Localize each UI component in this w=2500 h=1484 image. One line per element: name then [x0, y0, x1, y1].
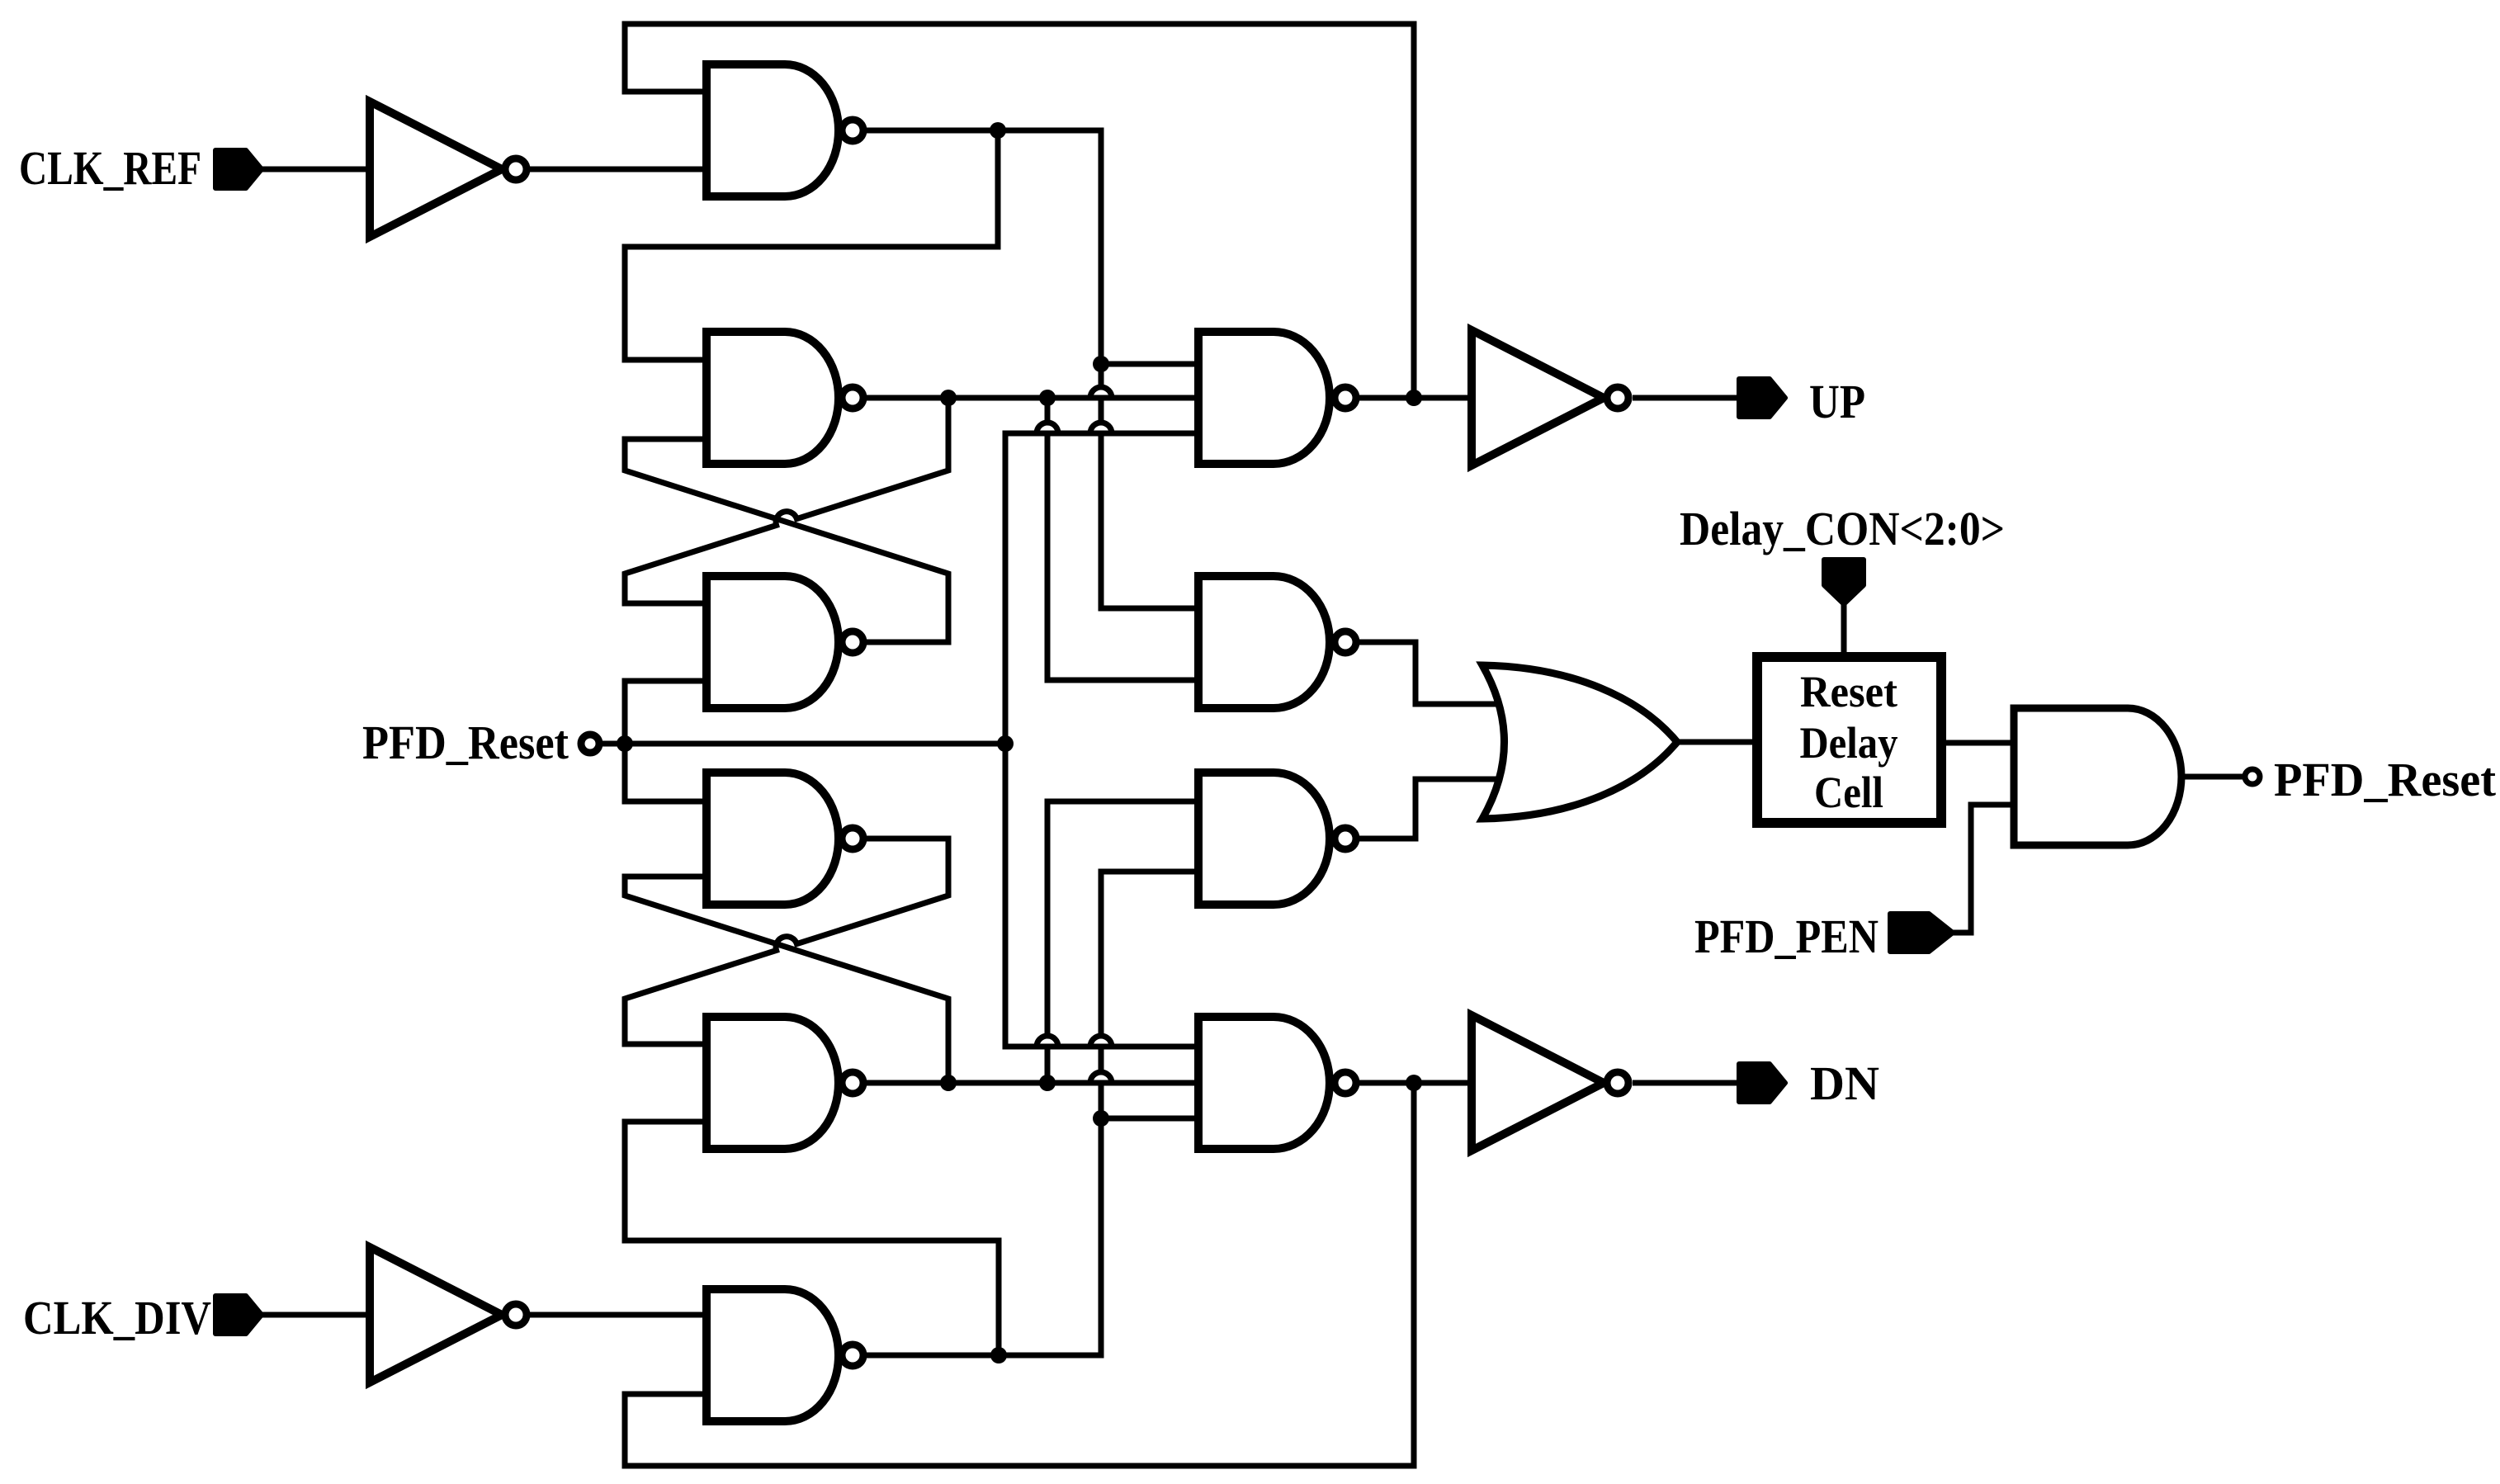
inverter X3 (UP output) [1472, 330, 1628, 466]
junction U5 output node B [1039, 1075, 1056, 1091]
nand gate U3 [707, 576, 863, 708]
wire U2 output branch down to NAND A input 2 [1047, 398, 1203, 680]
or gate U11 [1482, 665, 1677, 819]
wire PFD_Reset rail to U3 input B [625, 681, 707, 744]
wire AND output to PFD_Reset terminal [2181, 774, 2244, 780]
junction U2 output node A [940, 390, 957, 406]
wire branch to DN NAND input 3 [1101, 1116, 1203, 1122]
wire U4 output via diagonal (with hop) to U5 input A [625, 839, 948, 1044]
wire DN-output feedback to U6 input B (bottom rail) [625, 1083, 1414, 1466]
junction U1 output node [990, 122, 1006, 139]
wire U1 output down-left to U2 input A [625, 130, 998, 360]
wire branch to UP NAND input 1 [1101, 362, 1203, 367]
junction U5 output node A [940, 1075, 957, 1091]
wire Delay_CON pin to Reset Delay Cell [1841, 603, 1847, 652]
wire inverter X4 to DN pin [1633, 1080, 1743, 1086]
output pin DN [1739, 1064, 1785, 1102]
nand gate U6 (CLK_DIV latch) [707, 1289, 863, 1421]
wire CLK_REF pin to inverter X1 [260, 167, 370, 173]
svg-text:CLK_REF: CLK_REF [19, 141, 201, 195]
wire DN NAND output to inverter X4 [1359, 1080, 1472, 1086]
wire UP-output feedback to U1 input A (top rail) [625, 24, 1414, 398]
and gate U12 (PFD_PEN gating) [2014, 708, 2181, 845]
junction DN output feedback tap [1406, 1075, 1422, 1091]
inverter X4 (DN output) [1472, 1015, 1628, 1151]
svg-text:PFD_PEN: PFD_PEN [1694, 910, 1879, 963]
junction U2 output node B [1039, 390, 1056, 406]
wire U3 output via diagonal to U2 input B [625, 439, 948, 642]
inverter X2 (CLK_DIV input) [370, 1247, 527, 1382]
wire NAND A output to OR input 1 [1359, 642, 1498, 704]
input pin PFD_PEN [1890, 914, 1953, 952]
terminal PFD_Reset (left, node) [581, 735, 599, 753]
svg-text:Reset: Reset [1800, 667, 1897, 716]
wire NAND B output to OR input 2 [1359, 779, 1498, 839]
wire PFD_Reset terminal rail [602, 741, 1005, 747]
wire U5 output branch via diagonal to U4 input B [625, 877, 948, 1083]
wire UP NAND output to inverter X3 [1359, 395, 1472, 401]
nand gate U9 (to OR, lower) [1198, 773, 1356, 905]
svg-text:UP: UP [1809, 375, 1865, 428]
wire U2 output to UP NAND input 2 [863, 395, 1203, 401]
wire inverter X2 to U6 input A [529, 1312, 707, 1318]
input pin Delay_CON [1824, 560, 1864, 604]
wire CLK_DIV pin to inverter X2 [260, 1312, 370, 1318]
wire Reset Delay Cell to AND input 1 [1946, 740, 2014, 746]
wire U5 output to DN NAND input 2 [863, 1080, 1203, 1086]
input pin CLK_REF [215, 150, 262, 188]
junction UP NAND input-1 tap [1093, 356, 1109, 372]
nand gate U8 (to OR, upper) [1198, 576, 1356, 708]
hop PFD_Reset line over U5-out vertical [1037, 1036, 1058, 1047]
hop PFD_Reset line over U6-out vertical [1090, 1036, 1112, 1047]
wire U6 output to NAND B input 2 via vertical [863, 872, 1203, 1355]
svg-text:Delay: Delay [1800, 718, 1898, 768]
nand gate U1 (CLK_REF latch) [707, 64, 863, 196]
junction DN NAND input-3 tap [1093, 1110, 1109, 1127]
wire inverter X3 to UP pin [1633, 395, 1743, 401]
input pin CLK_DIV [215, 1296, 262, 1334]
wire PFD_Reset rail down to DN NAND input 1 [1005, 744, 1203, 1047]
wire U5 output branch up to NAND B input 1 [1047, 801, 1203, 1083]
hop U5-out line over U6-out vertical [1090, 1072, 1112, 1083]
wire OR output to Reset Delay Cell [1677, 740, 1752, 745]
nand gate U10 (DN, 3-input) [1198, 1017, 1356, 1149]
inverter X1 (CLK_REF input) [370, 102, 527, 237]
junction PFD_Reset rail right [997, 735, 1014, 752]
wire PFD_Reset rail to U4 input A [625, 744, 707, 801]
wire PFD_PEN pin to AND input 2 [1951, 805, 2014, 933]
wire U1 output to NAND A input 1 via vertical [863, 130, 1203, 608]
block Reset Delay Cell [1757, 657, 1941, 823]
wire PFD_Reset rail up to UP NAND input 3 [1005, 433, 1203, 744]
svg-text:Delay_CON<2:0>: Delay_CON<2:0> [1680, 502, 2005, 555]
svg-text:DN: DN [1810, 1056, 1879, 1110]
wire inverter X1 to U1 input B [529, 167, 707, 173]
wire U6 output up-left to U5 input B [625, 1122, 999, 1355]
svg-text:PFD_Reset: PFD_Reset [362, 716, 569, 769]
svg-text:PFD_Reset: PFD_Reset [2274, 753, 2497, 806]
junction UP output feedback tap [1406, 390, 1422, 406]
svg-text:Cell: Cell [1814, 768, 1883, 817]
nand gate U5 [707, 1017, 863, 1149]
svg-text:CLK_DIV: CLK_DIV [23, 1291, 211, 1345]
hop PFD_Reset line over U2-out vertical [1037, 423, 1058, 433]
wire U2 output branch via diagonal (with hop) to U3 input A [625, 398, 948, 603]
nand gate U4 [707, 773, 863, 905]
terminal PFD_Reset (right, output) [2245, 769, 2260, 784]
junction U6 output node [990, 1347, 1007, 1363]
nand gate U7 (UP, 3-input) [1198, 332, 1356, 464]
nand gate U2 [707, 332, 863, 464]
hop U2-out line over U1-out vertical [1090, 387, 1112, 398]
output pin UP [1739, 379, 1785, 417]
junction PFD_Reset rail left [617, 735, 633, 752]
hop PFD_Reset line over U1-out vertical [1090, 423, 1112, 433]
